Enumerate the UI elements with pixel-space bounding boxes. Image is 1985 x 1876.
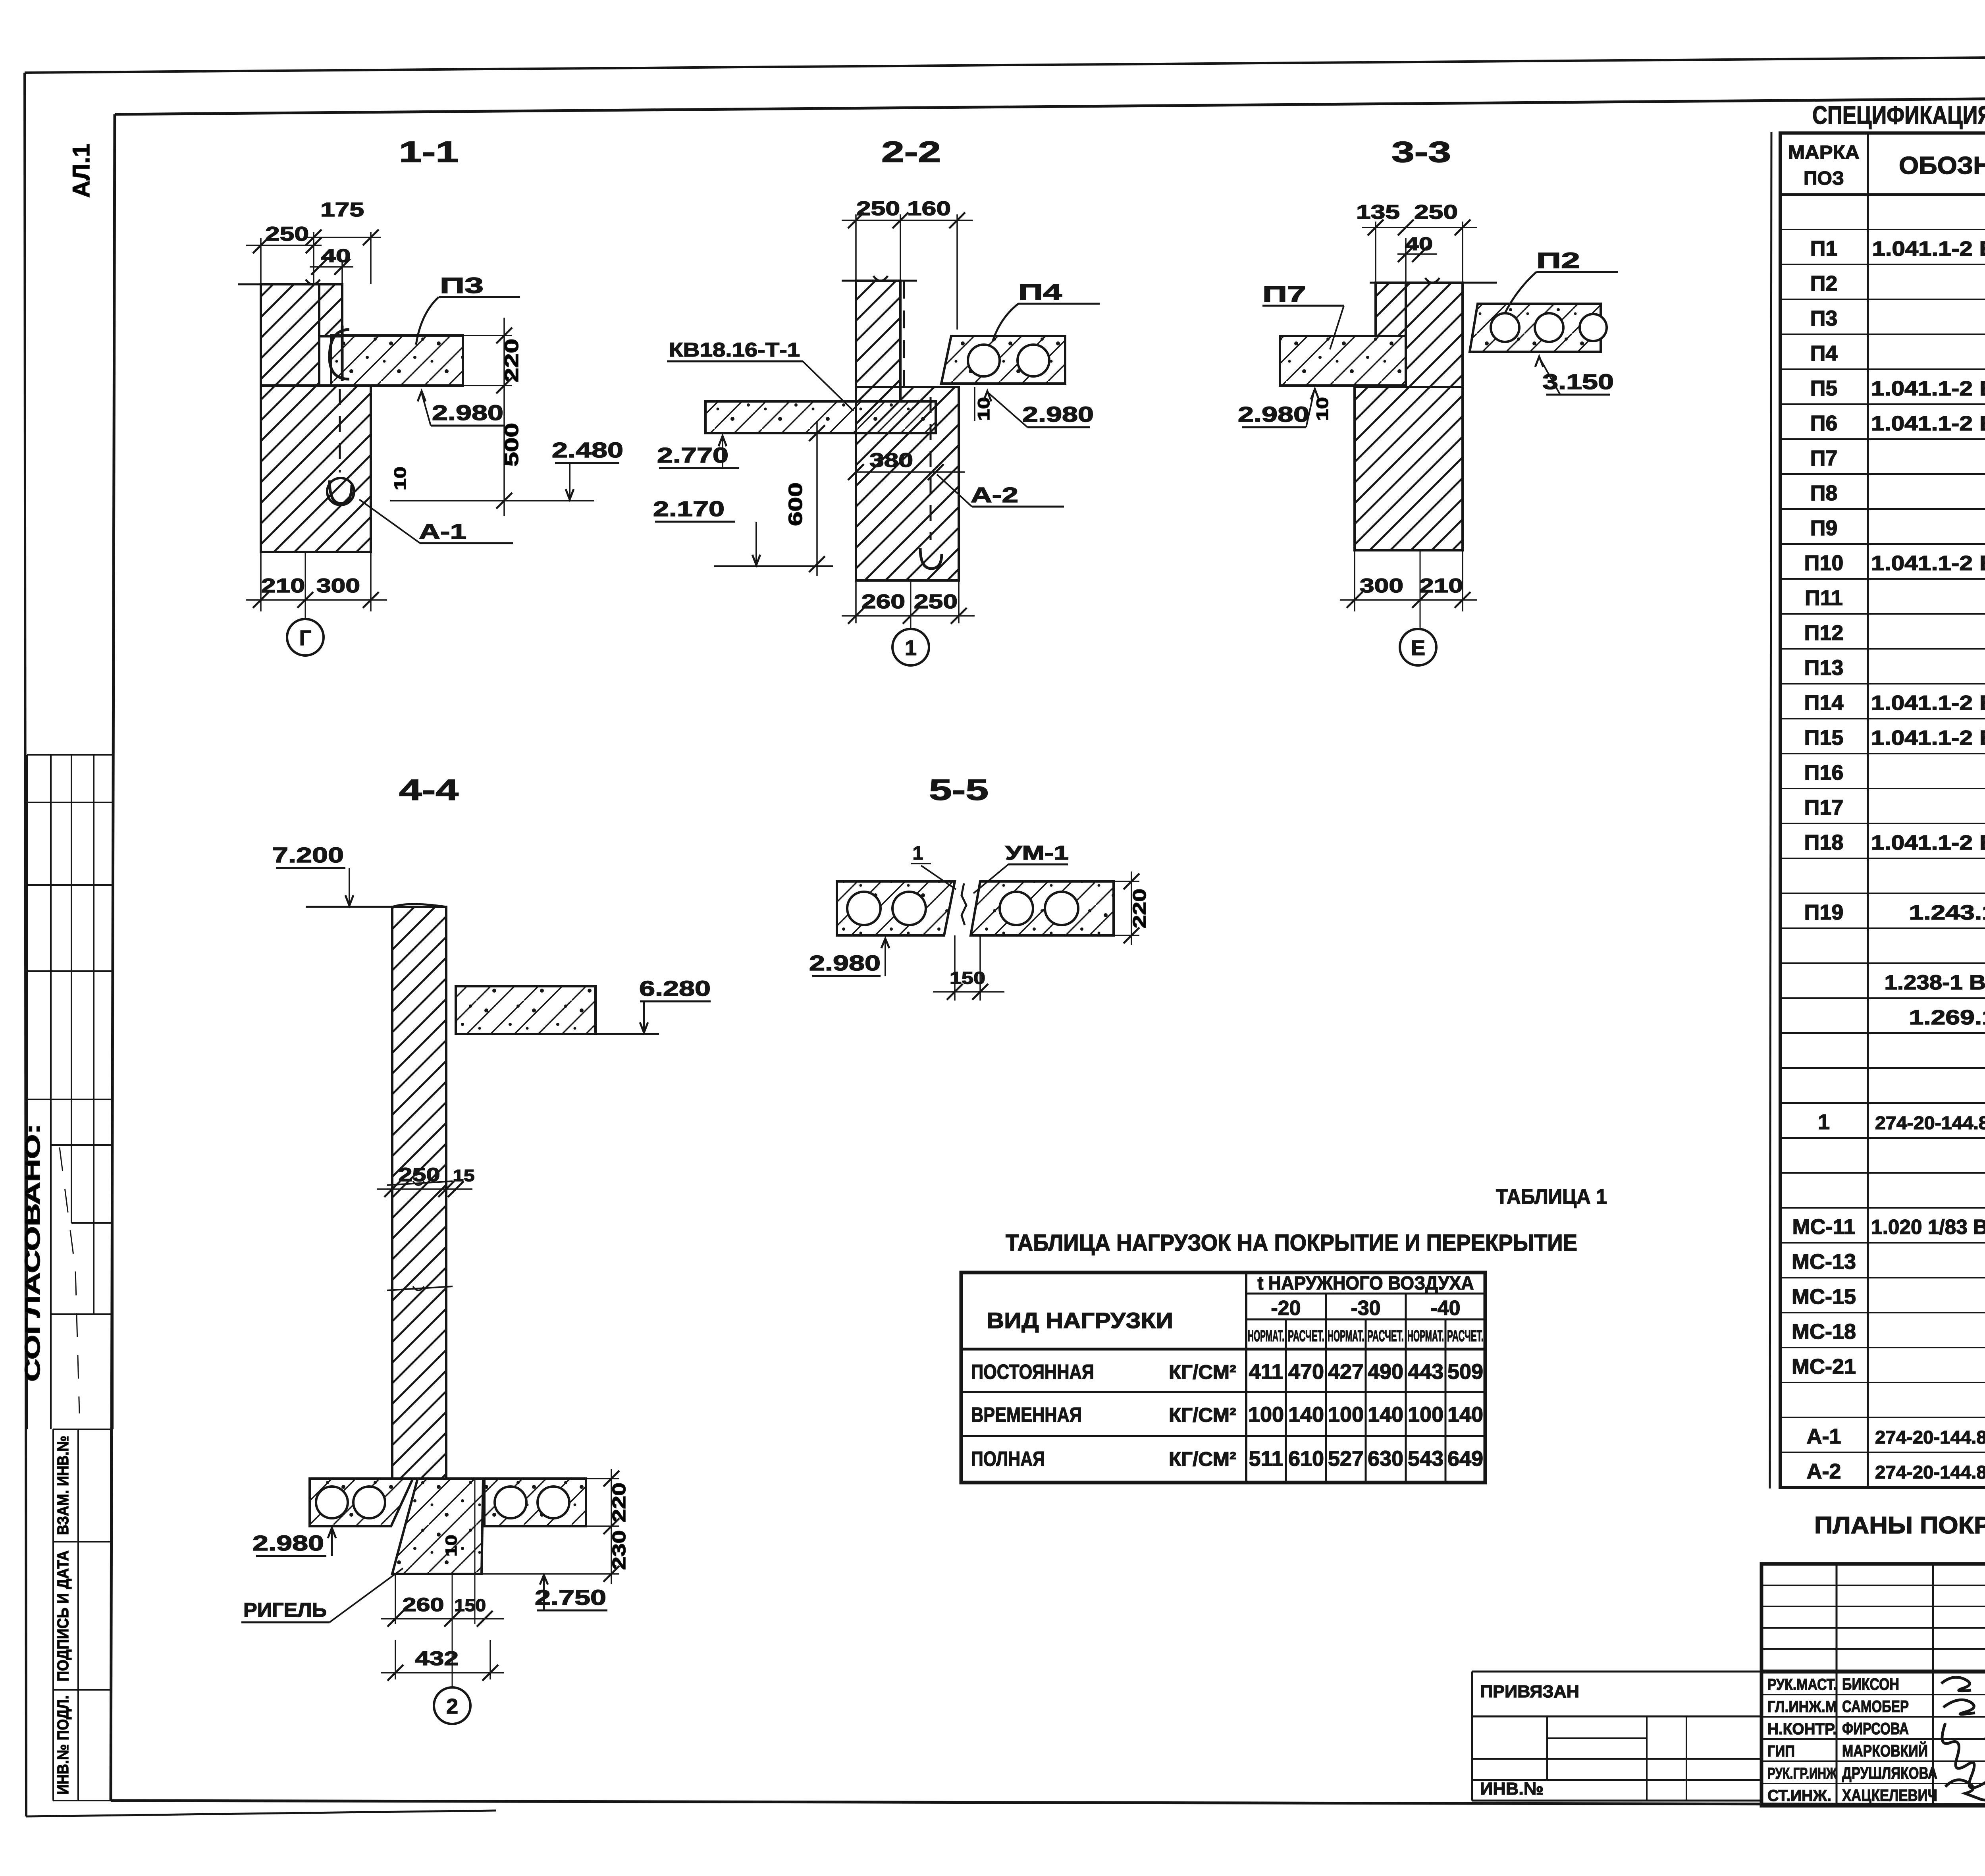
svg-text:СОГЛАСОВАНО:: СОГЛАСОВАНО:: [21, 1124, 44, 1382]
svg-text:А-2: А-2: [971, 483, 1018, 507]
svg-text:1: 1: [913, 843, 923, 864]
svg-text:П19: П19: [1804, 900, 1844, 924]
svg-text:П2: П2: [1536, 248, 1580, 273]
svg-text:СТ.ИНЖ.: СТ.ИНЖ.: [1767, 1787, 1831, 1805]
svg-text:ГИП: ГИП: [1767, 1743, 1795, 1760]
svg-text:ОБОЗНАЧЕНИЕ: ОБОЗНАЧЕНИЕ: [1899, 152, 1985, 179]
svg-text:470: 470: [1288, 1360, 1324, 1384]
svg-text:РАСЧЕТ.: РАСЧЕТ.: [1288, 1327, 1324, 1345]
svg-text:ИНВ.№: ИНВ.№: [1480, 1779, 1544, 1799]
svg-text:380: 380: [869, 449, 913, 471]
svg-text:П16: П16: [1804, 761, 1844, 785]
svg-text:260: 260: [861, 590, 905, 613]
svg-text:140: 140: [1368, 1403, 1403, 1427]
svg-text:150: 150: [454, 1596, 486, 1615]
svg-text:П18: П18: [1804, 831, 1844, 854]
svg-text:САМОБЕР: САМОБЕР: [1842, 1697, 1909, 1716]
svg-text:10: 10: [1313, 397, 1332, 421]
svg-text:КГ/СМ²: КГ/СМ²: [1169, 1404, 1236, 1426]
svg-text:610: 610: [1288, 1447, 1324, 1471]
svg-text:П13: П13: [1804, 656, 1844, 680]
svg-text:427: 427: [1328, 1360, 1364, 1384]
svg-text:Г: Г: [299, 626, 312, 650]
svg-text:СПЕЦИФИКАЦИЯ ЭЛЕМЕНТОВ ПОКРЫТИ: СПЕЦИФИКАЦИЯ ЭЛЕМЕНТОВ ПОКРЫТИЯ И ПЕРЕКР…: [1812, 101, 1985, 129]
svg-text:П10: П10: [1804, 551, 1844, 575]
svg-text:ИНВ.№ ПОДЛ.: ИНВ.№ ПОДЛ.: [54, 1695, 72, 1795]
svg-text:150: 150: [950, 968, 985, 988]
svg-text:630: 630: [1368, 1447, 1403, 1471]
svg-text:527: 527: [1328, 1447, 1364, 1471]
svg-text:П7: П7: [1262, 281, 1306, 307]
svg-text:ГЛ.ИНЖ.М: ГЛ.ИНЖ.М: [1767, 1698, 1837, 1716]
svg-text:П14: П14: [1804, 691, 1844, 715]
svg-text:2.980: 2.980: [432, 401, 503, 425]
svg-text:210: 210: [1419, 575, 1463, 597]
svg-text:175: 175: [320, 199, 364, 221]
svg-text:100: 100: [1248, 1403, 1284, 1427]
svg-text:3-3: 3-3: [1391, 135, 1451, 168]
svg-text:443: 443: [1408, 1360, 1443, 1384]
svg-text:2.980: 2.980: [809, 951, 881, 975]
svg-text:ТАБЛИЦА 1: ТАБЛИЦА 1: [1496, 1185, 1607, 1209]
svg-text:511: 511: [1249, 1447, 1283, 1471]
svg-text:220: 220: [501, 339, 522, 382]
svg-text:300: 300: [1360, 575, 1403, 597]
svg-text:П15: П15: [1804, 726, 1844, 750]
svg-text:НОРМАТ.: НОРМАТ.: [1248, 1327, 1284, 1345]
svg-text:1.041.1-2 ВЫП.6: 1.041.1-2 ВЫП.6: [1871, 831, 1985, 854]
svg-text:ПОДПИСЬ И ДАТА: ПОДПИСЬ И ДАТА: [54, 1550, 72, 1681]
svg-text:МС-18: МС-18: [1792, 1320, 1856, 1344]
svg-text:2-2: 2-2: [881, 135, 941, 168]
svg-text:6.280: 6.280: [639, 977, 711, 1001]
svg-text:1.269.1-4: 1.269.1-4: [1909, 1006, 1985, 1029]
svg-text:250: 250: [914, 590, 958, 613]
svg-text:1.041.1-2 ВЫП.1: 1.041.1-2 ВЫП.1: [1872, 237, 1985, 260]
svg-text:250: 250: [399, 1165, 440, 1186]
svg-text:МАРКА: МАРКА: [1788, 142, 1860, 163]
svg-text:490: 490: [1368, 1360, 1403, 1384]
svg-text:П17: П17: [1804, 796, 1844, 819]
svg-text:100: 100: [1408, 1403, 1443, 1427]
svg-text:160: 160: [907, 197, 951, 220]
svg-text:МАРКОВКИЙ: МАРКОВКИЙ: [1842, 1741, 1928, 1760]
svg-text:140: 140: [1288, 1403, 1324, 1427]
svg-text:ХАЦКЕЛЕВИЧ: ХАЦКЕЛЕВИЧ: [1842, 1786, 1937, 1805]
svg-text:НОРМАТ.: НОРМАТ.: [1328, 1327, 1364, 1345]
svg-text:КГ/СМ²: КГ/СМ²: [1169, 1361, 1236, 1383]
svg-text:П7: П7: [1810, 446, 1838, 470]
svg-text:210: 210: [261, 575, 305, 597]
svg-text:2: 2: [446, 1695, 458, 1718]
svg-text:П8: П8: [1810, 481, 1838, 505]
svg-text:t НАРУЖНОГО ВОЗДУХА: t НАРУЖНОГО ВОЗДУХА: [1258, 1273, 1474, 1294]
svg-text:1.041.1-2 ВЫП.6: 1.041.1-2 ВЫП.6: [1871, 692, 1985, 715]
svg-text:1.041.1-2 ВЫП.3: 1.041.1-2 ВЫП.3: [1871, 552, 1985, 575]
svg-text:300: 300: [316, 575, 360, 597]
svg-text:П4: П4: [1810, 341, 1838, 365]
svg-text:1.020 1/83 ВЫП.7-1: 1.020 1/83 ВЫП.7-1: [1871, 1216, 1985, 1239]
svg-text:ДРУШЛЯКОВА: ДРУШЛЯКОВА: [1842, 1764, 1937, 1782]
svg-text:П11: П11: [1805, 586, 1843, 610]
svg-text:5-5: 5-5: [929, 773, 989, 806]
svg-text:2.480: 2.480: [552, 438, 623, 462]
svg-text:274-20-144.85АС1.И2.01.00: 274-20-144.85АС1.И2.01.00: [1875, 1112, 1985, 1133]
svg-text:П3: П3: [440, 273, 484, 298]
svg-text:649: 649: [1447, 1447, 1483, 1471]
svg-text:40: 40: [321, 245, 351, 266]
svg-text:140: 140: [1447, 1403, 1483, 1427]
svg-text:А-1: А-1: [1806, 1425, 1841, 1448]
svg-text:-20: -20: [1271, 1297, 1301, 1320]
svg-text:2.750: 2.750: [535, 1586, 606, 1610]
svg-text:4-4: 4-4: [399, 773, 459, 806]
svg-text:250: 250: [1414, 201, 1458, 223]
svg-text:-30: -30: [1351, 1297, 1380, 1320]
svg-text:П2: П2: [1810, 272, 1838, 295]
svg-text:МС-13: МС-13: [1792, 1250, 1856, 1274]
svg-text:543: 543: [1408, 1447, 1443, 1471]
svg-text:МС-15: МС-15: [1792, 1285, 1856, 1309]
svg-text:МС-21: МС-21: [1792, 1355, 1856, 1379]
svg-text:1.243.1-4: 1.243.1-4: [1909, 901, 1985, 924]
svg-text:250: 250: [265, 223, 309, 245]
svg-text:КГ/СМ²: КГ/СМ²: [1169, 1448, 1236, 1470]
svg-text:10: 10: [443, 1535, 460, 1557]
svg-text:НОРМАТ.: НОРМАТ.: [1407, 1327, 1444, 1345]
svg-text:1.041.1-2 ВЫП.1: 1.041.1-2 ВЫП.1: [1871, 727, 1985, 750]
svg-text:230: 230: [609, 1530, 629, 1570]
svg-text:509: 509: [1447, 1360, 1483, 1384]
svg-text:220: 220: [609, 1483, 629, 1522]
svg-text:П4: П4: [1018, 280, 1062, 305]
svg-text:2.980: 2.980: [1238, 403, 1309, 426]
svg-text:ПОСТОЯННАЯ: ПОСТОЯННАЯ: [971, 1361, 1094, 1384]
svg-text:220: 220: [1129, 889, 1150, 928]
svg-text:РИГЕЛЬ: РИГЕЛЬ: [243, 1599, 327, 1621]
svg-text:15: 15: [453, 1166, 475, 1185]
svg-text:П5: П5: [1810, 376, 1838, 400]
svg-text:УМ-1: УМ-1: [1005, 842, 1069, 864]
svg-text:274-20-144.85 АС1.И3.05.00: 274-20-144.85 АС1.И3.05.00: [1875, 1462, 1985, 1483]
svg-text:ПОЗ: ПОЗ: [1804, 168, 1844, 189]
svg-text:1-1: 1-1: [399, 135, 459, 168]
svg-text:П12: П12: [1804, 621, 1844, 645]
svg-text:ПРИВЯЗАН: ПРИВЯЗАН: [1480, 1682, 1579, 1701]
svg-text:МС-11: МС-11: [1792, 1215, 1855, 1239]
svg-text:2.980: 2.980: [1022, 403, 1094, 426]
svg-text:РАСЧЕТ.: РАСЧЕТ.: [1447, 1327, 1484, 1345]
svg-text:-40: -40: [1430, 1297, 1460, 1320]
svg-text:10: 10: [391, 467, 409, 490]
svg-text:ПОЛНАЯ: ПОЛНАЯ: [971, 1448, 1045, 1471]
svg-text:ВИД НАГРУЗКИ: ВИД НАГРУЗКИ: [987, 1308, 1173, 1333]
svg-text:РАСЧЕТ.: РАСЧЕТ.: [1367, 1327, 1404, 1345]
svg-text:КВ18.16-Т-1: КВ18.16-Т-1: [669, 339, 800, 361]
svg-text:260: 260: [403, 1595, 444, 1616]
svg-text:1.041.1-2 ВЫП.6: 1.041.1-2 ВЫП.6: [1871, 377, 1985, 400]
svg-text:2.980: 2.980: [252, 1531, 324, 1555]
svg-text:135: 135: [1356, 201, 1400, 223]
svg-text:ФИРСОВА: ФИРСОВА: [1842, 1719, 1909, 1738]
svg-text:П6: П6: [1810, 411, 1838, 435]
svg-text:ВЗАМ. ИНВ.№: ВЗАМ. ИНВ.№: [54, 1436, 72, 1535]
svg-text:100: 100: [1328, 1403, 1364, 1427]
svg-text:1: 1: [1818, 1110, 1830, 1134]
svg-text:600: 600: [785, 482, 806, 526]
svg-text:П9: П9: [1810, 516, 1838, 540]
svg-text:БИКСОН: БИКСОН: [1842, 1675, 1899, 1693]
svg-text:П3: П3: [1810, 307, 1838, 330]
svg-text:40: 40: [1405, 233, 1433, 254]
svg-text:1.238-1 ВЫП.2: 1.238-1 ВЫП.2: [1885, 971, 1985, 994]
svg-text:РУК.ГР.ИНЖ: РУК.ГР.ИНЖ: [1767, 1765, 1837, 1782]
svg-text:П1: П1: [1810, 237, 1838, 260]
svg-text:250: 250: [856, 197, 900, 220]
svg-text:ПЛАНЫ ПОКРЫТИЯ И ПЕРЕКРЫТИЯ СМ: ПЛАНЫ ПОКРЫТИЯ И ПЕРЕКРЫТИЯ СМ.ЛИСТЫ 24.…: [1814, 1512, 1985, 1539]
svg-text:ТАБЛИЦА НАГРУЗОК НА ПОКРЫТИЕ И: ТАБЛИЦА НАГРУЗОК НА ПОКРЫТИЕ И ПЕРЕКРЫТИ…: [1006, 1230, 1577, 1256]
svg-text:1.041.1-2 ВЫП.5: 1.041.1-2 ВЫП.5: [1871, 412, 1985, 435]
svg-text:274-20-144.85 АС1.И3.04.00: 274-20-144.85 АС1.И3.04.00: [1875, 1427, 1985, 1448]
svg-text:ВРЕМЕННАЯ: ВРЕМЕННАЯ: [971, 1404, 1082, 1427]
svg-text:411: 411: [1249, 1360, 1283, 1384]
svg-text:АЛ.1: АЛ.1: [68, 144, 94, 198]
svg-text:1: 1: [905, 636, 917, 660]
svg-text:7.200: 7.200: [272, 843, 344, 867]
svg-text:А-2: А-2: [1806, 1460, 1841, 1483]
svg-text:2.170: 2.170: [653, 497, 725, 521]
svg-text:Н.КОНТР.: Н.КОНТР.: [1767, 1720, 1837, 1738]
svg-text:Е: Е: [1411, 636, 1425, 660]
svg-text:500: 500: [501, 423, 522, 467]
svg-text:2.770: 2.770: [657, 443, 728, 467]
svg-text:А-1: А-1: [419, 520, 466, 544]
svg-text:РУК.МАСТ.: РУК.МАСТ.: [1767, 1676, 1837, 1693]
